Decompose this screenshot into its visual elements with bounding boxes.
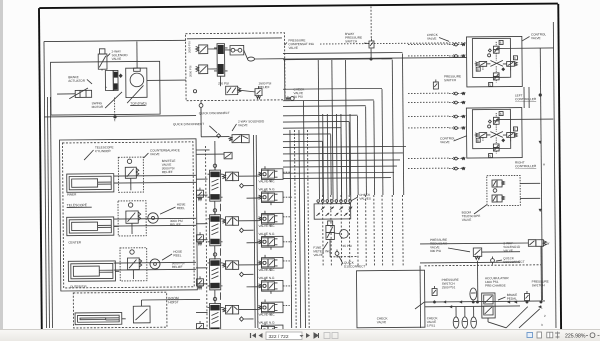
svg-text:LEFTCONTROLLER: LEFTCONTROLLER [515,93,537,101]
svg-text:2: 2 [544,314,546,318]
svg-text:CONTROLVALVE: CONTROLVALVE [531,32,546,40]
svg-text:BOOMTELESCOPEVALVE: BOOMTELESCOPEVALVE [462,210,481,222]
svg-text:PRESSURESW1TCH: PRESSURESW1TCH [532,280,549,288]
svg-text:VALVE-N.C.: VALVE-N.C. [258,313,275,317]
svg-text:F: F [514,127,516,131]
svg-text:QU1CKD1SCONNECT: QU1CKD1SCONNECT [503,256,524,264]
svg-text:CONTROLVALVE: CONTROLVALVE [440,136,455,144]
svg-text:QUICK DISCONNECT: QUICK DISCONNECT [173,122,204,126]
svg-text:VALVE N.O.: VALVE N.O. [258,232,275,236]
svg-text:250 PSI: 250 PSI [218,81,229,85]
svg-text:B/N/TELEVALVE3000 PSIRELIEF: B/N/TELEVALVE3000 PSIRELIEF [162,159,176,174]
svg-text:HOSEREEL: HOSEREEL [173,250,182,258]
svg-text:3: 3 [541,323,543,327]
svg-text:2600 PSIRELIEF: 2600 PSIRELIEF [259,81,272,89]
svg-text:F: F [514,56,516,60]
svg-text:F1NEMETER INGVALVE: F1NEMETER INGVALVE [313,246,331,258]
svg-text:B'WAYPRESSURESWITCH: B'WAYPRESSURESWITCH [345,32,362,44]
svg-text:2000 PSI: 2000 PSI [187,41,191,53]
svg-text:VALVE N.O.: VALVE N.O. [258,276,275,280]
svg-text:2: 2 [104,86,108,88]
svg-text:VALVE N.O.: VALVE N.O. [259,321,276,325]
svg-text:RIGHTCONTROLLER: RIGHTCONTROLLER [515,160,537,168]
svg-text:CHECKVALVE5 PS1: CHECKVALVE5 PS1 [427,316,439,328]
svg-text:PRESSUREREDUC1NGVALVE900 PSI: PRESSUREREDUC1NGVALVE900 PSI [430,238,448,253]
svg-text:VALVE-N.C.: VALVE-N.C. [258,268,275,272]
svg-text:OUTER/TIP: OUTER/TIP [70,285,87,289]
svg-text:SWINGMOTOR: SWINGMOTOR [92,101,104,109]
svg-text:2-WAYSOLENOIDVALVE: 2-WAYSOLENOIDVALVE [112,49,129,61]
svg-text:2-WAY SOLENOIDVALVE: 2-WAY SOLENOIDVALVE [238,119,265,127]
svg-text:QUICKD1SCONNECT: QUICKD1SCONNECT [344,261,365,269]
svg-text:BOOMHOIST: BOOMHOIST [168,296,179,304]
svg-text:HOSEREEL: HOSEREEL [177,202,186,210]
svg-text:PRESSURESWITCH: PRESSURESWITCH [444,74,461,82]
svg-text:BRAKEACTUATOR: BRAKEACTUATOR [68,75,86,83]
svg-text:VALVE-N.C.: VALVE-N.C. [258,224,275,228]
svg-text:VALVE N.O.: VALVE N.O. [258,187,275,191]
svg-text:322 / 722: 322 / 722 [269,334,289,340]
svg-text:VALVE-N.C.: VALVE-N.C. [258,179,275,183]
svg-text:2000 PSI: 2000 PSI [188,65,192,77]
svg-text:ACCUMULATOR1400 PS1PRE-CHARGE: ACCUMULATOR1400 PS1PRE-CHARGE [485,276,509,288]
svg-text:A: A [543,162,545,166]
svg-text:65 PSI: 65 PSI [343,244,352,248]
svg-text:INNER: INNER [67,192,77,196]
svg-text:BRAKEPEDAL: BRAKEPEDAL [507,293,518,301]
svg-text:COUNTERBALANCEVALVE: COUNTERBALANCEVALVE [150,148,180,156]
svg-text:QUICK DISCONNECT: QUICK DISCONNECT [199,111,230,115]
svg-text:225.98%: 225.98% [565,334,586,340]
svg-text:W: W [546,242,549,246]
svg-text:B: B [477,139,479,143]
svg-text:B: B [477,67,479,71]
svg-text:TELESCOPE: TELESCOPE [67,203,88,207]
svg-text:1: 1 [541,305,543,309]
svg-text:PRESSURESW1TCH2500 PS1: PRESSURESW1TCH2500 PS1 [442,278,459,290]
svg-text:CHECKVALVE: CHECKVALVE [427,33,439,41]
svg-text:PRESSURECOMPENSAT INGVALVE: PRESSURECOMPENSAT INGVALVE [288,38,314,50]
svg-text:TELESCOPECYLINDER: TELESCOPECYLINDER [95,145,114,153]
svg-text:CENTER: CENTER [68,240,82,244]
